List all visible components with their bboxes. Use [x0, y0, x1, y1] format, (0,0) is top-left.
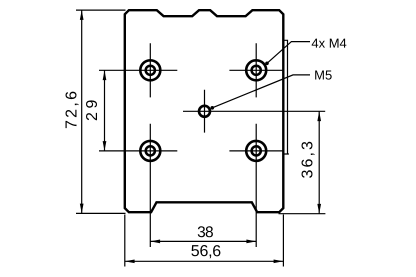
- dimension 56,6 : extension lines: [125, 215, 284, 267]
- hole M4 bottom-right : outer circle: [246, 141, 266, 161]
- dimension 38 : arrow left: [150, 240, 160, 244]
- dimension 56,6 : arrow left: [125, 259, 135, 263]
- hole M4 bottom-right : center lines + extension to 38 dim: [229, 124, 283, 247]
- right side clamp strip: [284, 40, 289, 154]
- hole M5 center : center lines + extension to 36,3 dim: [183, 90, 325, 133]
- plate outline (mounting flange body): [125, 10, 283, 212]
- hole M4 bottom-right : inner circle: [252, 146, 261, 155]
- dimension 36,3 : arrow down: [317, 204, 321, 214]
- leader M5 : end dot: [211, 106, 215, 110]
- dimension 29 : arrow down: [103, 141, 107, 151]
- leader 4x M4 : polyline: [267, 42, 310, 64]
- hole M4 bottom-left : outer circle: [140, 141, 160, 161]
- svg-text:72,6: 72,6: [63, 91, 80, 129]
- dimension 72,6 : extension lines: [76, 10, 126, 213]
- hole M4 top-left : outer circle: [140, 60, 160, 80]
- dimension 38 : arrow right: [246, 240, 256, 244]
- dimension 36,3 : dimension line: [318, 111, 320, 213]
- leader M5 : polyline: [212, 75, 310, 108]
- dimension 38 : dimension line: [150, 240, 256, 242]
- hole M4 top-left : inner circle: [146, 66, 155, 75]
- svg-text:38: 38: [197, 224, 214, 241]
- hole M4 top-right : outer circle: [246, 60, 266, 80]
- dimension 36,3 : extension line bottom: [279, 213, 326, 215]
- svg-text:M5: M5: [314, 68, 332, 83]
- hole M4 top-left : center lines: [99, 43, 177, 97]
- hole M4 top-right : inner circle: [252, 66, 261, 75]
- dimension 56,6 : arrow right: [274, 259, 284, 263]
- hole M4 top-right : center lines: [229, 43, 283, 97]
- dimension 72,6 : arrow down: [80, 204, 84, 214]
- dimension 56,6 : dimension line: [125, 260, 284, 262]
- dimension 72,6 : arrow up: [80, 10, 84, 20]
- svg-text:36,3: 36,3: [299, 141, 316, 178]
- hole M5 center : circle: [199, 106, 210, 117]
- dimension 29 : dimension line: [104, 70, 106, 151]
- leader 4x M4 : end dot: [265, 62, 269, 66]
- dimension 36,3 : arrow up: [317, 111, 321, 121]
- dimension 29 : arrow up: [103, 70, 107, 80]
- dimension 72,6 : dimension line: [81, 10, 83, 213]
- hole M4 bottom-left : inner circle: [146, 146, 155, 155]
- svg-text:56,6: 56,6: [191, 243, 222, 260]
- hole M4 bottom-left : center lines + extension to 38 dim: [99, 124, 177, 247]
- svg-text:4x M4: 4x M4: [311, 36, 346, 51]
